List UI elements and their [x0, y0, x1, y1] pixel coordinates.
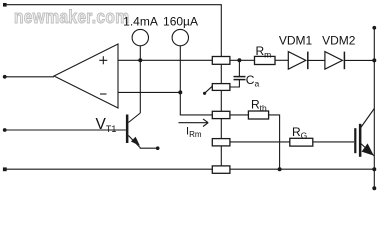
wire right rail: [373, 28, 375, 189]
node junction at current source 2: [178, 90, 182, 94]
wire op-amp output: [5, 76, 54, 78]
node rail bottom junction: [372, 167, 376, 171]
node rail diode junction: [372, 58, 376, 62]
svg-text:Ca: Ca: [246, 73, 260, 89]
resistor chain R1: [212, 57, 230, 65]
svg-text:Rm: Rm: [256, 44, 272, 60]
op-amp U1: [54, 44, 118, 108]
svg-text:160µA: 160µA: [163, 15, 198, 29]
node base terminal: [3, 128, 7, 132]
resistor R5 in bottom line: [212, 166, 230, 173]
svg-text:newmaker.com: newmaker.com: [14, 7, 129, 27]
node emitter terminal: [156, 146, 160, 150]
node rail bottom terminal: [372, 186, 376, 190]
op-amp plus input marking: [99, 56, 107, 64]
wire VT1 base: [5, 129, 126, 131]
wire R4 to RG: [230, 141, 290, 143]
resistor chain vertical wire: [220, 64, 222, 166]
watermark newmaker.com: [14, 7, 129, 27]
svg-text:VDM2: VDM2: [322, 34, 356, 48]
svg-text:RG: RG: [292, 125, 307, 141]
node top-left terminal: [3, 3, 7, 7]
wire VDM1 to VDM2: [308, 59, 325, 61]
op-amp minus input marking: [100, 93, 107, 95]
wire noninverting input line: [118, 59, 212, 61]
node output terminal: [3, 75, 7, 79]
current source I2 160uA: [172, 29, 188, 45]
wire bottom line: [5, 168, 375, 170]
resistor RG: [290, 138, 313, 146]
wire top rail: [5, 5, 222, 57]
node Rth bottom junction: [278, 167, 282, 171]
svg-text:VDM1: VDM1: [279, 34, 313, 48]
wire current source 2 drop: [180, 46, 212, 115]
svg-text:VT1: VT1: [96, 116, 117, 134]
resistor chain R3: [212, 111, 230, 118]
wire R1 right to Rm: [230, 59, 255, 61]
capacitor Ca: [238, 60, 240, 76]
trimmer wiper arrow: [206, 86, 213, 92]
svg-text:Rth: Rth: [251, 98, 267, 114]
wire VDM2 to right rail: [344, 59, 374, 61]
wire Rth down to bottom line: [269, 115, 280, 169]
diode VDM2: [325, 52, 343, 70]
current arrow IRm: [179, 119, 209, 127]
transistor IGBT: [354, 128, 356, 153]
resistor chain R2 trimmer: [212, 84, 230, 91]
resistor Rm: [255, 56, 276, 64]
node junction at current source 1: [138, 58, 142, 62]
diode VDM1: [288, 52, 306, 70]
resistor Rth: [248, 111, 268, 119]
wire RG to gate: [313, 141, 354, 143]
svg-text:1.4mA: 1.4mA: [123, 15, 158, 29]
node Ca tap junction: [237, 58, 241, 62]
resistor chain R4: [212, 139, 230, 146]
current source I1 1.4mA: [132, 29, 148, 45]
wire current source 1 drop: [139, 46, 141, 113]
wire Rm to VDM1: [275, 59, 288, 61]
svg-text:IRm: IRm: [186, 126, 202, 140]
transistor VT1: [126, 115, 128, 144]
wire inverting input line: [118, 91, 180, 93]
node bottom-left terminal: [3, 167, 7, 171]
node rail top terminal: [372, 26, 376, 30]
wire R3 to Rth: [230, 114, 249, 116]
